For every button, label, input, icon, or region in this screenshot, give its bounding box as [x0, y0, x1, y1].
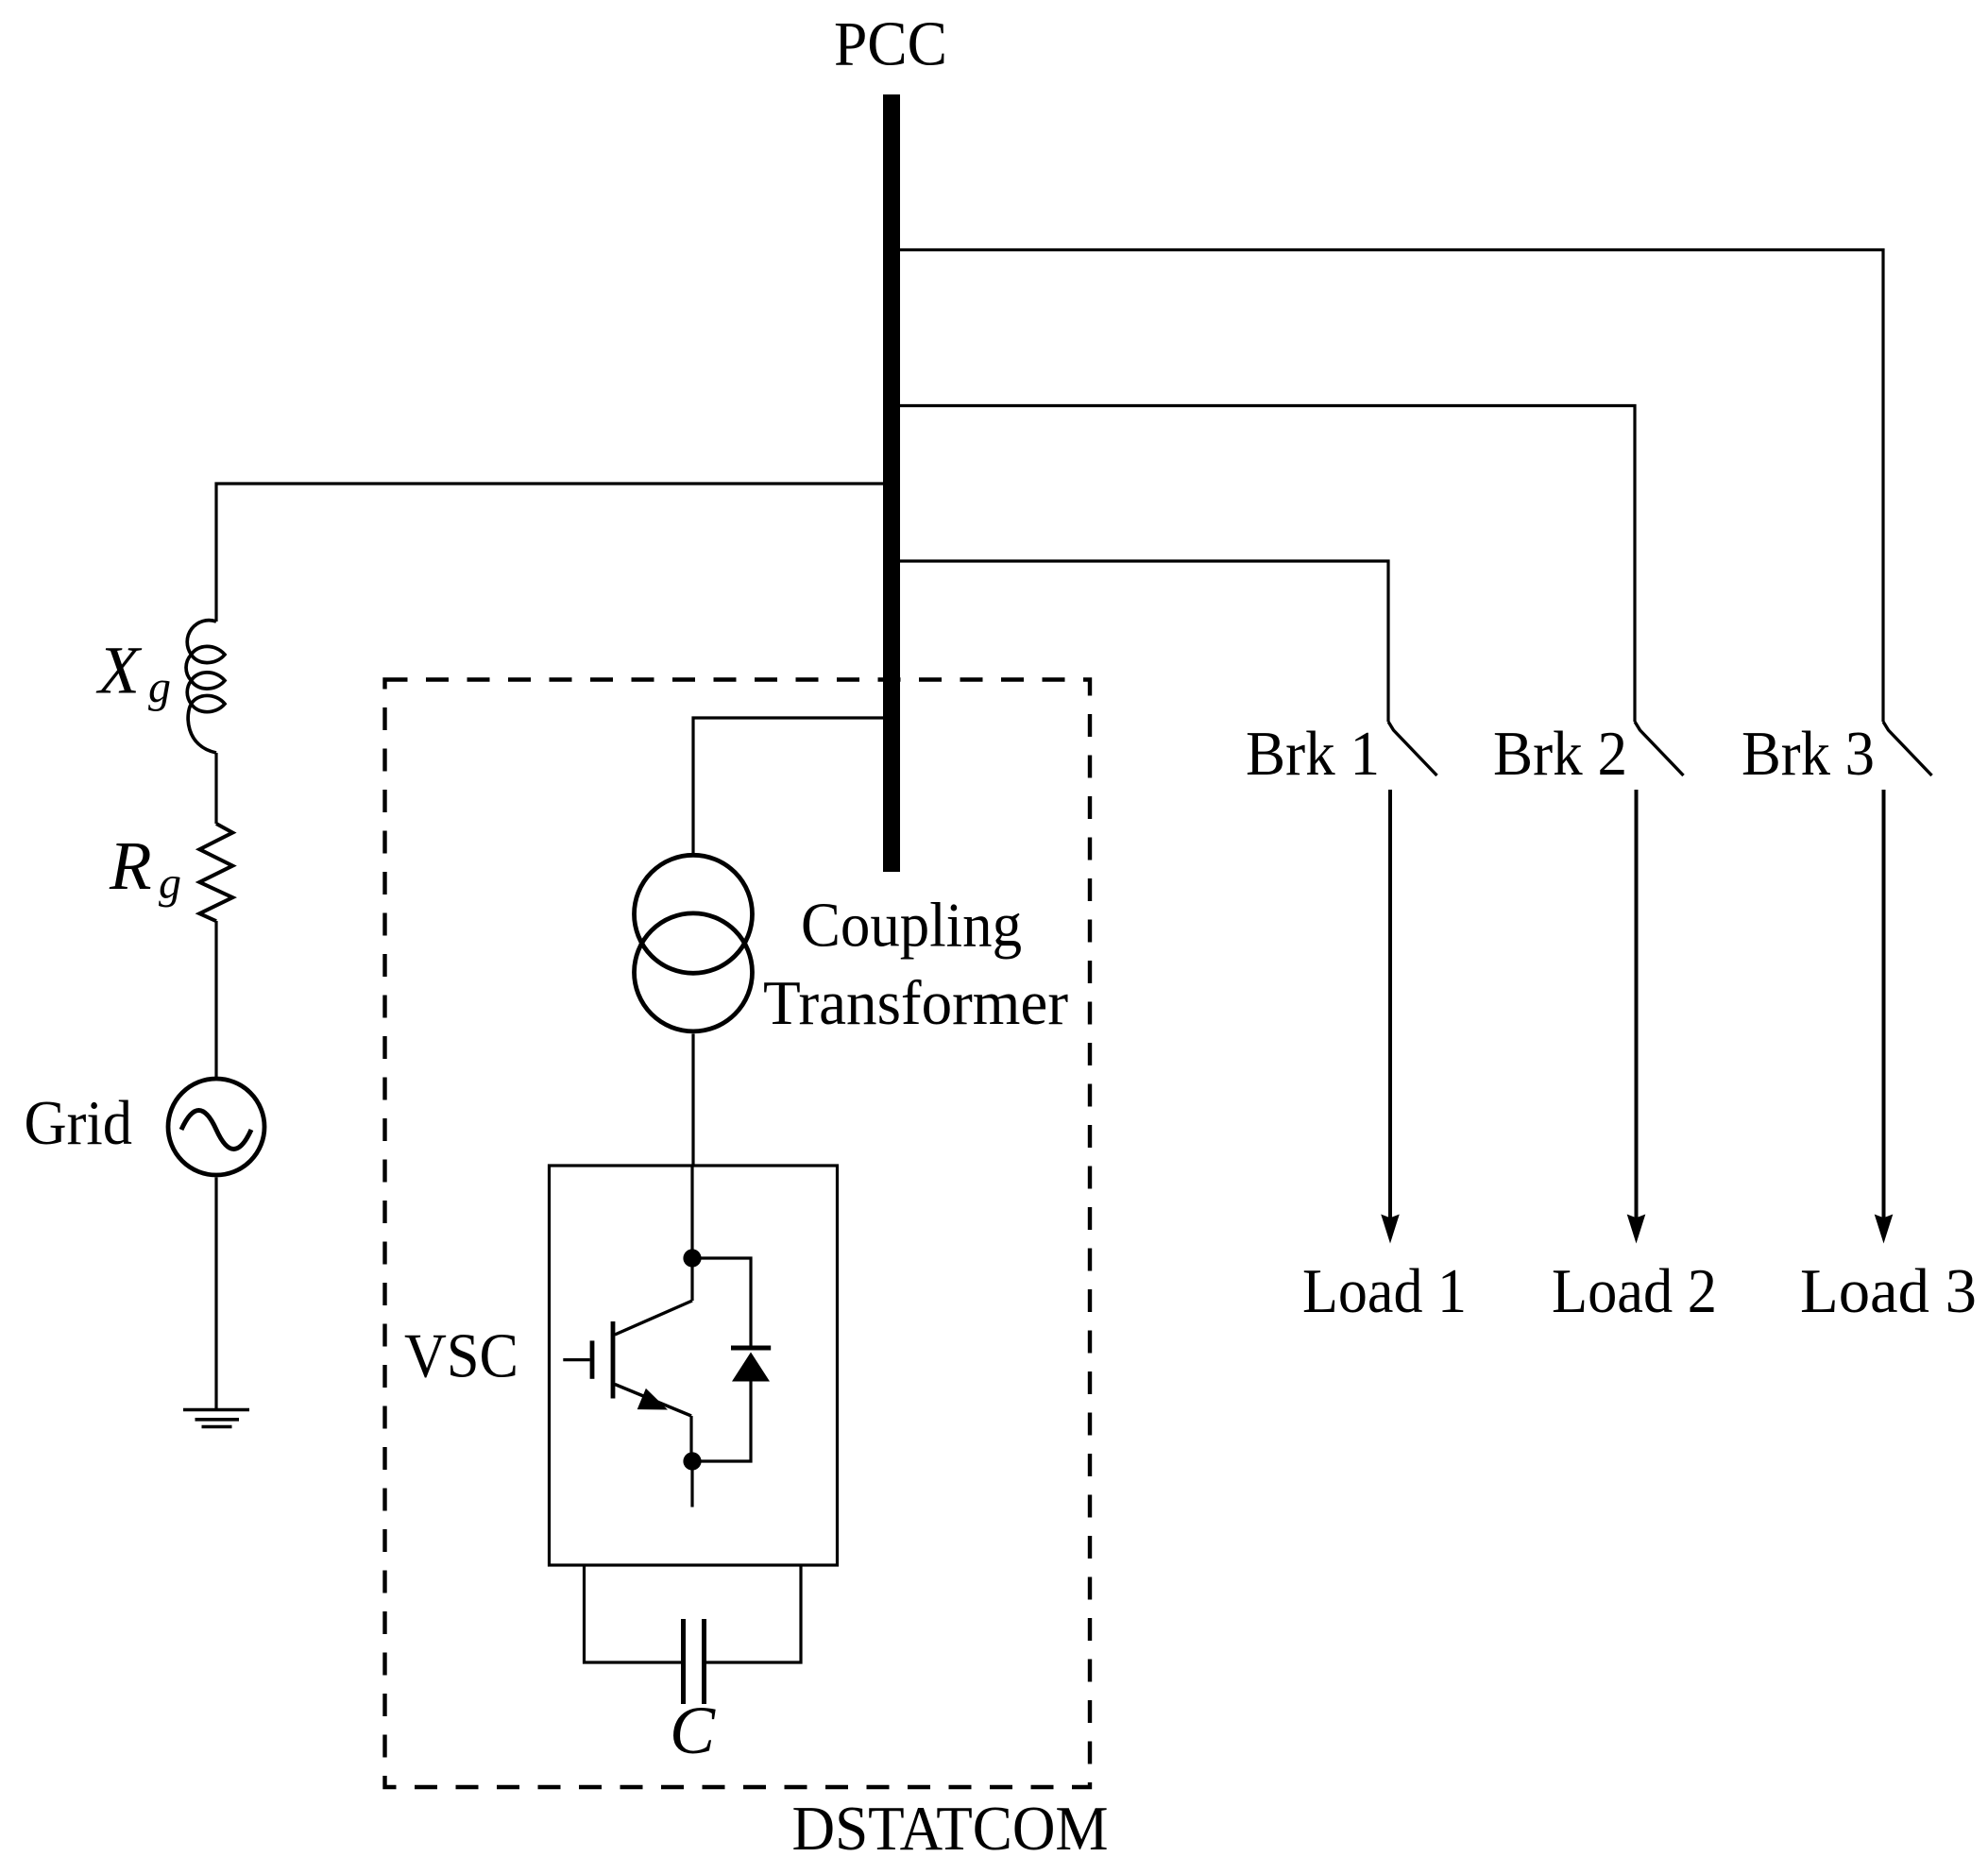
svg-text:VSC: VSC: [404, 1321, 518, 1391]
wire emitter to bottom dot: [689, 1416, 692, 1461]
node dot top: [683, 1249, 701, 1267]
wire arrow to Load 3: [1882, 790, 1886, 1218]
wire grid branch (bus to left and down): [216, 484, 883, 622]
breaker Brk 1 blade: [1388, 722, 1437, 775]
wire resistor to source: [214, 921, 217, 1077]
svg-text:X: X: [95, 633, 143, 708]
coupling transformer (two overlapping circles): [635, 855, 753, 973]
DSTATCOM dashed enclosure: [385, 680, 1091, 1788]
source Grid (AC source): [168, 1079, 264, 1175]
wire arrow to Load 2: [1635, 790, 1639, 1218]
bus PCC (thick busbar): [883, 94, 900, 872]
svg-text:PCC: PCC: [834, 9, 947, 79]
wire top dot to diode: [692, 1258, 751, 1346]
ground: [183, 1408, 249, 1412]
wire feeder 3 (bus to Brk 1): [900, 561, 1388, 722]
wire feeder 1 (bus to Brk 3): [900, 250, 1883, 723]
wire feeder 2 (bus to Brk 2): [900, 406, 1635, 723]
svg-text:R: R: [109, 827, 152, 904]
svg-text:C: C: [670, 1693, 716, 1768]
wire diode to bottom dot: [692, 1382, 751, 1462]
svg-text:Load 1: Load 1: [1302, 1256, 1467, 1326]
wire VSC to DC link (right): [705, 1565, 802, 1662]
wire dot to collector diagonal: [690, 1258, 693, 1301]
wire arrow to Load 1: [1388, 790, 1392, 1218]
diode D1 cathode bar: [731, 1346, 771, 1351]
collector diagonal: [615, 1301, 692, 1335]
wire source to ground: [214, 1178, 217, 1409]
IGBT main bar: [611, 1321, 616, 1399]
gate lead: [563, 1358, 589, 1361]
svg-text:g: g: [148, 662, 171, 712]
emitter arrowhead: [637, 1388, 668, 1410]
svg-text:g: g: [159, 859, 181, 909]
svg-text:Coupling: Coupling: [801, 891, 1022, 961]
svg-text:Brk 3: Brk 3: [1742, 719, 1875, 789]
resistor Rg: [199, 824, 232, 921]
svg-text:Grid: Grid: [25, 1088, 133, 1158]
emitter diagonal: [615, 1385, 691, 1417]
svg-text:Load 2: Load 2: [1552, 1256, 1717, 1326]
node dot bottom: [683, 1452, 701, 1470]
breaker Brk 3 blade: [1883, 722, 1932, 775]
svg-text:Transformer: Transformer: [763, 968, 1068, 1038]
svg-text:Load 3: Load 3: [1800, 1256, 1977, 1326]
svg-text:Brk 1: Brk 1: [1246, 719, 1380, 789]
svg-text:DSTATCOM: DSTATCOM: [792, 1794, 1109, 1864]
wire inductor to resistor: [214, 753, 217, 824]
svg-text:Brk 2: Brk 2: [1493, 719, 1627, 789]
wire bus to coupling transformer: [693, 718, 883, 853]
diode D1 triangle: [732, 1353, 770, 1382]
capacitor C plates: [681, 1619, 686, 1704]
emitter stub: [690, 1461, 693, 1508]
breaker Brk 2 blade: [1635, 722, 1684, 775]
wire transformer to VSC: [691, 1034, 694, 1167]
inductor Xg: [186, 621, 225, 753]
IGBT gate bar: [590, 1340, 595, 1378]
VSC box: [550, 1166, 838, 1565]
transistor Q1 (IGBT) collector lead: [690, 1166, 693, 1258]
wire VSC to DC link (left): [585, 1565, 684, 1662]
